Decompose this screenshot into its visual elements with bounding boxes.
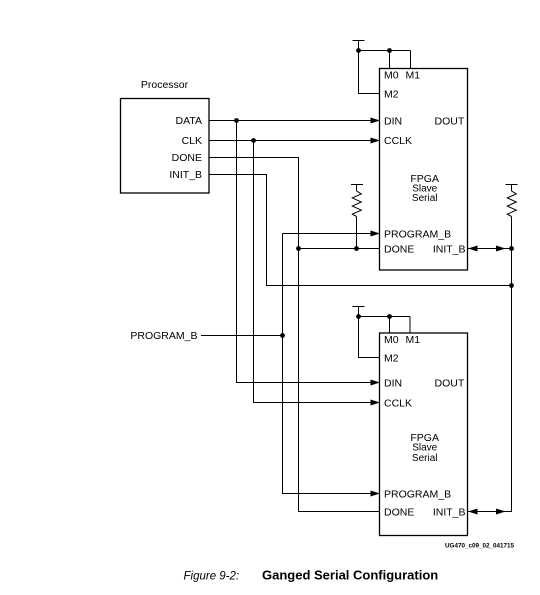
arrow DIN (U1)	[371, 118, 381, 124]
svg-text:Processor: Processor	[141, 79, 189, 91]
wire DATA branch to DIN (U2)	[237, 121, 372, 383]
svg-text:UG470_c09_02_041715: UG470_c09_02_041715	[445, 543, 514, 550]
wire VCC to M0/M1/M2 (U1)	[359, 51, 411, 94]
power VCC symbol (above U2 mode pins)	[353, 307, 365, 317]
arrow INIT_B into U1	[468, 246, 478, 252]
arrow DIN (U2)	[371, 380, 381, 386]
wire INIT_B from processor to INIT_B net	[209, 175, 512, 286]
svg-text:PROGRAM_B: PROGRAM_B	[384, 229, 451, 241]
svg-text:DATA: DATA	[176, 115, 202, 127]
svg-text:CCLK: CCLK	[384, 398, 412, 410]
svg-text:DOUT: DOUT	[435, 116, 465, 128]
resistor R1 (DONE pull-up)	[351, 185, 363, 249]
junction DONE net at U1	[296, 246, 301, 251]
FPGA U2 (bottom, slave serial)	[380, 333, 468, 536]
junction CLK branch	[251, 138, 256, 143]
arrow CCLK (U2)	[371, 400, 381, 406]
wire DONE net to U1 DONE	[299, 248, 380, 250]
resistor R2 (INIT_B pull-up)	[506, 185, 518, 217]
svg-text:DIN: DIN	[384, 378, 402, 390]
svg-text:DIN: DIN	[384, 116, 402, 128]
svg-text:DONE: DONE	[384, 244, 414, 256]
arrow INIT_B toward net (top)	[496, 246, 506, 252]
svg-text:INIT_B: INIT_B	[169, 169, 202, 181]
arrow INIT_B into U2	[468, 509, 478, 515]
wire CLK to CCLK (U1)	[209, 140, 371, 142]
svg-text:Slave: Slave	[412, 443, 437, 454]
arrow INIT_B toward net (bottom)	[496, 509, 506, 515]
svg-text:M0: M0	[384, 70, 399, 82]
svg-text:INIT_B: INIT_B	[433, 507, 466, 519]
svg-text:PROGRAM_B: PROGRAM_B	[384, 489, 451, 501]
junction PROGRAM_B net	[280, 333, 285, 338]
wire VCC to M0/M1/M2 (U2)	[359, 317, 411, 358]
junction M0 branch U2	[387, 314, 392, 319]
processor box	[121, 99, 210, 194]
svg-text:CLK: CLK	[182, 135, 202, 147]
svg-text:INIT_B: INIT_B	[433, 244, 466, 256]
junction INIT_B net	[509, 283, 514, 288]
svg-text:DONE: DONE	[172, 152, 202, 164]
svg-text:CCLK: CCLK	[384, 135, 412, 147]
wire CLK branch to CCLK (U2)	[254, 141, 372, 403]
svg-text:Serial: Serial	[412, 453, 438, 464]
svg-text:M0: M0	[384, 334, 399, 346]
wire DONE net (processor DONE down to U2 DONE)	[209, 158, 380, 512]
svg-text:DOUT: DOUT	[435, 378, 465, 390]
junction R1 to DONE net	[354, 246, 359, 251]
svg-text:Serial: Serial	[412, 193, 438, 204]
svg-text:M2: M2	[384, 353, 399, 365]
arrow CCLK (U1)	[371, 138, 381, 144]
junction M0 branch U1	[387, 48, 392, 53]
svg-text:M2: M2	[384, 89, 399, 101]
junction VCC node U2	[356, 314, 361, 319]
wire DATA to DIN (U1)	[209, 120, 371, 122]
svg-text:DONE: DONE	[384, 507, 414, 519]
junction VCC node U1	[356, 48, 361, 53]
svg-text:Figure 9-2:: Figure 9-2:	[184, 571, 240, 583]
svg-text:M1: M1	[406, 334, 421, 346]
power VCC symbol (above U1 mode pins)	[353, 41, 365, 51]
svg-text:Ganged Serial Configuration: Ganged Serial Configuration	[262, 568, 438, 583]
svg-text:PROGRAM_B: PROGRAM_B	[130, 330, 197, 342]
arrow PROGRAM_B (U2)	[371, 491, 381, 497]
arrow PROGRAM_B (U1)	[371, 231, 381, 237]
junction DATA branch	[234, 118, 239, 123]
wire PROGRAM_B net	[283, 234, 372, 494]
wire PROGRAM_B label stub	[201, 335, 283, 337]
wire INIT_B U1 to net	[468, 248, 512, 250]
FPGA U1 (top, slave serial)	[380, 69, 468, 271]
wire INIT_B net vertical (R2 to U2)	[468, 217, 512, 512]
junction INIT_B at R2	[509, 246, 514, 251]
svg-text:M1: M1	[406, 70, 421, 82]
